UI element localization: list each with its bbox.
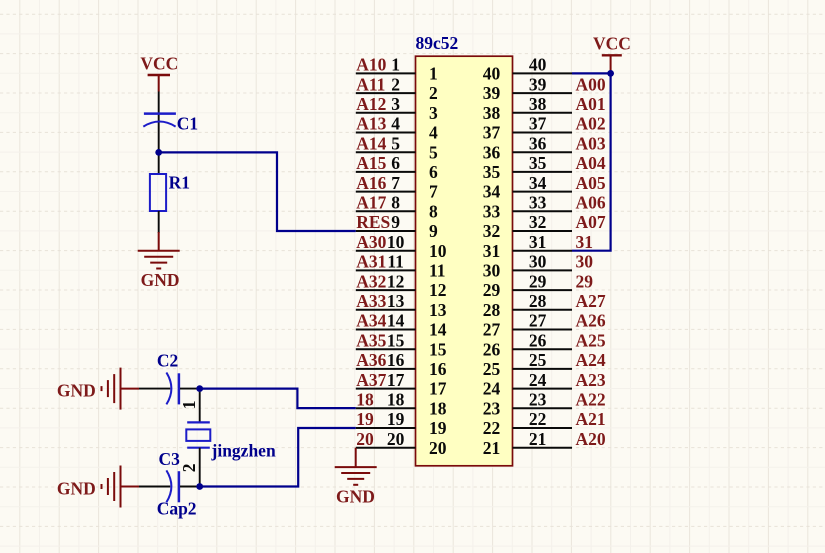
pin 39 stub	[513, 92, 573, 94]
pin 23 stub	[513, 407, 573, 409]
pin 3 stub	[356, 112, 416, 114]
svg-text:C1: C1	[177, 114, 198, 134]
IC U1 89c52 body	[416, 56, 513, 466]
svg-text:A16: A16	[356, 173, 386, 193]
pin 28 stub	[513, 309, 573, 311]
svg-text:A14: A14	[356, 133, 386, 153]
svg-text:31: 31	[576, 232, 594, 252]
svg-text:GND: GND	[57, 380, 96, 400]
pin 16 stub	[356, 368, 416, 370]
svg-text:A22: A22	[576, 390, 606, 410]
svg-text:A13: A13	[356, 114, 386, 134]
svg-text:R1: R1	[169, 172, 190, 192]
svg-text:20: 20	[356, 429, 374, 449]
pin 30 stub	[513, 269, 573, 271]
capacitor C1	[143, 114, 176, 127]
wire	[158, 211, 160, 233]
svg-text:2: 2	[429, 83, 438, 103]
svg-text:A06: A06	[576, 193, 606, 213]
svg-text:22: 22	[529, 409, 547, 429]
svg-text:25: 25	[483, 359, 501, 379]
pin 27 stub	[513, 329, 573, 331]
svg-text:40: 40	[483, 64, 501, 84]
svg-text:Cap2: Cap2	[157, 499, 197, 519]
svg-text:31: 31	[483, 241, 501, 261]
wire pin40 to VCC and pin31	[572, 73, 611, 250]
svg-text:16: 16	[387, 350, 405, 370]
svg-text:32: 32	[483, 221, 501, 241]
svg-text:14: 14	[387, 311, 405, 331]
svg-text:8: 8	[429, 201, 438, 221]
svg-text:10: 10	[387, 232, 405, 252]
svg-text:27: 27	[529, 311, 547, 331]
svg-text:30: 30	[576, 252, 594, 272]
svg-text:A21: A21	[576, 409, 606, 429]
svg-text:33: 33	[483, 201, 501, 221]
svg-text:17: 17	[387, 370, 405, 390]
svg-text:34: 34	[529, 173, 547, 193]
svg-text:5: 5	[391, 133, 400, 153]
svg-text:29: 29	[483, 280, 501, 300]
svg-text:28: 28	[529, 291, 547, 311]
node junction VCC/pin40	[607, 70, 614, 77]
ground GND (rotated, at C3)	[102, 466, 140, 508]
svg-text:A07: A07	[576, 212, 606, 232]
pin 5 stub	[356, 151, 416, 153]
svg-text:13: 13	[387, 291, 405, 311]
svg-text:1: 1	[391, 55, 400, 75]
svg-text:VCC: VCC	[593, 34, 631, 54]
svg-text:1: 1	[429, 64, 438, 84]
svg-text:29: 29	[576, 271, 594, 291]
svg-text:21: 21	[483, 438, 501, 458]
pin 22 stub	[513, 427, 573, 429]
pin 8 stub	[356, 210, 416, 212]
svg-text:15: 15	[387, 330, 405, 350]
svg-text:A15: A15	[356, 153, 386, 173]
svg-text:jingzhen: jingzhen	[211, 441, 276, 461]
pin 40 stub	[513, 72, 573, 74]
wire pin18 net	[200, 389, 356, 409]
svg-text:A25: A25	[576, 330, 606, 350]
svg-text:18: 18	[387, 390, 405, 410]
ground GND (below chip)	[335, 448, 377, 485]
svg-text:GND: GND	[57, 478, 96, 498]
svg-text:16: 16	[429, 359, 447, 379]
svg-text:18: 18	[356, 390, 374, 410]
pin 38 stub	[513, 112, 573, 114]
svg-text:30: 30	[529, 252, 547, 272]
svg-text:5: 5	[429, 142, 438, 162]
pin 20 stub	[356, 447, 416, 449]
svg-text:26: 26	[483, 339, 501, 359]
svg-text:A02: A02	[576, 114, 606, 134]
svg-text:19: 19	[387, 409, 405, 429]
svg-text:A30: A30	[356, 232, 386, 252]
crystal Y1 jingzhen	[186, 392, 276, 487]
wire pin19 net	[200, 428, 356, 487]
pin 13 stub	[356, 309, 416, 311]
pin 9 stub	[356, 230, 416, 232]
svg-text:4: 4	[391, 114, 400, 134]
svg-text:9: 9	[429, 221, 438, 241]
svg-text:4: 4	[429, 123, 438, 143]
svg-text:18: 18	[429, 398, 447, 418]
svg-text:9: 9	[391, 212, 400, 232]
power VCC (right)	[593, 34, 631, 74]
svg-text:7: 7	[429, 182, 438, 202]
svg-text:7: 7	[391, 173, 400, 193]
svg-text:2: 2	[179, 464, 199, 473]
svg-text:A10: A10	[356, 55, 386, 75]
svg-text:35: 35	[483, 162, 501, 182]
svg-text:A24: A24	[576, 350, 606, 370]
pin 2 stub	[356, 92, 416, 94]
svg-text:11: 11	[429, 261, 446, 281]
svg-text:39: 39	[483, 83, 501, 103]
pin 34 stub	[513, 191, 573, 193]
pin 33 stub	[513, 210, 573, 212]
pin 12 stub	[356, 289, 416, 291]
svg-text:24: 24	[529, 370, 547, 390]
svg-text:17: 17	[429, 379, 447, 399]
pin 4 stub	[356, 132, 416, 134]
svg-text:RES: RES	[356, 212, 390, 232]
wire net to pin9	[159, 152, 356, 231]
svg-text:23: 23	[529, 390, 547, 410]
svg-text:22: 22	[483, 418, 501, 438]
svg-text:20: 20	[429, 438, 447, 458]
svg-text:A23: A23	[576, 370, 606, 390]
pin 36 stub	[513, 151, 573, 153]
svg-text:12: 12	[429, 280, 447, 300]
svg-text:A27: A27	[576, 291, 606, 311]
pin 26 stub	[513, 348, 573, 350]
node junction C1/R1	[155, 149, 162, 156]
pin 10 stub	[356, 250, 416, 252]
svg-text:VCC: VCC	[140, 54, 178, 74]
ground GND (rotated, at C2)	[102, 368, 140, 410]
svg-text:GND: GND	[336, 487, 375, 507]
svg-text:A31: A31	[356, 252, 386, 272]
svg-text:1: 1	[179, 401, 199, 410]
svg-text:19: 19	[429, 418, 447, 438]
svg-text:14: 14	[429, 320, 447, 340]
svg-text:36: 36	[483, 142, 501, 162]
svg-text:30: 30	[483, 261, 501, 281]
pin 6 stub	[356, 171, 416, 173]
svg-text:6: 6	[391, 153, 400, 173]
pin 21 stub	[513, 447, 573, 449]
pin 29 stub	[513, 289, 573, 291]
svg-text:37: 37	[529, 114, 547, 134]
svg-text:C3: C3	[159, 449, 181, 469]
node junction C3/crystal	[196, 483, 203, 490]
svg-text:6: 6	[429, 162, 438, 182]
pin 37 stub	[513, 132, 573, 134]
svg-text:A36: A36	[356, 350, 386, 370]
ground GND (below R1)	[138, 232, 180, 269]
svg-text:21: 21	[529, 429, 547, 449]
svg-text:26: 26	[529, 330, 547, 350]
pin 35 stub	[513, 171, 573, 173]
svg-text:8: 8	[391, 193, 400, 213]
svg-text:A26: A26	[576, 311, 606, 331]
pin 17 stub	[356, 388, 416, 390]
pin 18 stub	[356, 407, 416, 409]
svg-text:12: 12	[387, 271, 405, 291]
pin 1 stub	[356, 72, 416, 74]
svg-text:A20: A20	[576, 429, 606, 449]
svg-text:A03: A03	[576, 133, 606, 153]
svg-text:2: 2	[391, 74, 400, 94]
svg-text:27: 27	[483, 320, 501, 340]
svg-text:A12: A12	[356, 94, 386, 114]
svg-text:10: 10	[429, 241, 447, 261]
svg-text:23: 23	[483, 398, 501, 418]
svg-text:24: 24	[483, 379, 501, 399]
svg-text:A04: A04	[576, 153, 606, 173]
wire	[158, 92, 160, 175]
svg-text:32: 32	[529, 212, 547, 232]
svg-text:25: 25	[529, 350, 547, 370]
svg-text:3: 3	[429, 103, 438, 123]
svg-text:A05: A05	[576, 173, 606, 193]
svg-text:33: 33	[529, 193, 547, 213]
svg-text:38: 38	[529, 94, 547, 114]
svg-text:40: 40	[529, 55, 547, 75]
svg-text:A34: A34	[356, 311, 386, 331]
svg-text:19: 19	[356, 409, 374, 429]
resistor R1	[150, 174, 166, 211]
svg-text:GND: GND	[141, 270, 180, 290]
pin 11 stub	[356, 269, 416, 271]
svg-text:13: 13	[429, 300, 447, 320]
svg-text:A37: A37	[356, 370, 386, 390]
svg-text:A17: A17	[356, 193, 386, 213]
svg-text:A00: A00	[576, 74, 606, 94]
pin 7 stub	[356, 191, 416, 193]
svg-text:A33: A33	[356, 291, 386, 311]
svg-text:15: 15	[429, 339, 447, 359]
svg-text:C2: C2	[157, 351, 178, 371]
svg-text:A32: A32	[356, 271, 386, 291]
svg-text:A35: A35	[356, 330, 386, 350]
svg-text:28: 28	[483, 300, 501, 320]
svg-text:38: 38	[483, 103, 501, 123]
pin 31 stub	[513, 250, 573, 252]
svg-text:89c52: 89c52	[416, 33, 459, 53]
svg-text:37: 37	[483, 123, 501, 143]
pin 32 stub	[513, 230, 573, 232]
svg-text:35: 35	[529, 153, 547, 173]
node junction C2/crystal	[196, 385, 203, 392]
svg-text:36: 36	[529, 133, 547, 153]
pin 24 stub	[513, 388, 573, 390]
svg-text:39: 39	[529, 74, 547, 94]
svg-text:A11: A11	[356, 74, 385, 94]
power VCC (left)	[140, 54, 178, 92]
svg-text:11: 11	[387, 252, 404, 272]
svg-text:20: 20	[387, 429, 405, 449]
svg-text:31: 31	[529, 232, 547, 252]
pin 15 stub	[356, 348, 416, 350]
pin 19 stub	[356, 427, 416, 429]
svg-text:A01: A01	[576, 94, 606, 114]
pin 25 stub	[513, 368, 573, 370]
svg-text:29: 29	[529, 271, 547, 291]
pin 14 stub	[356, 329, 416, 331]
svg-text:3: 3	[391, 94, 400, 114]
svg-text:34: 34	[483, 182, 501, 202]
